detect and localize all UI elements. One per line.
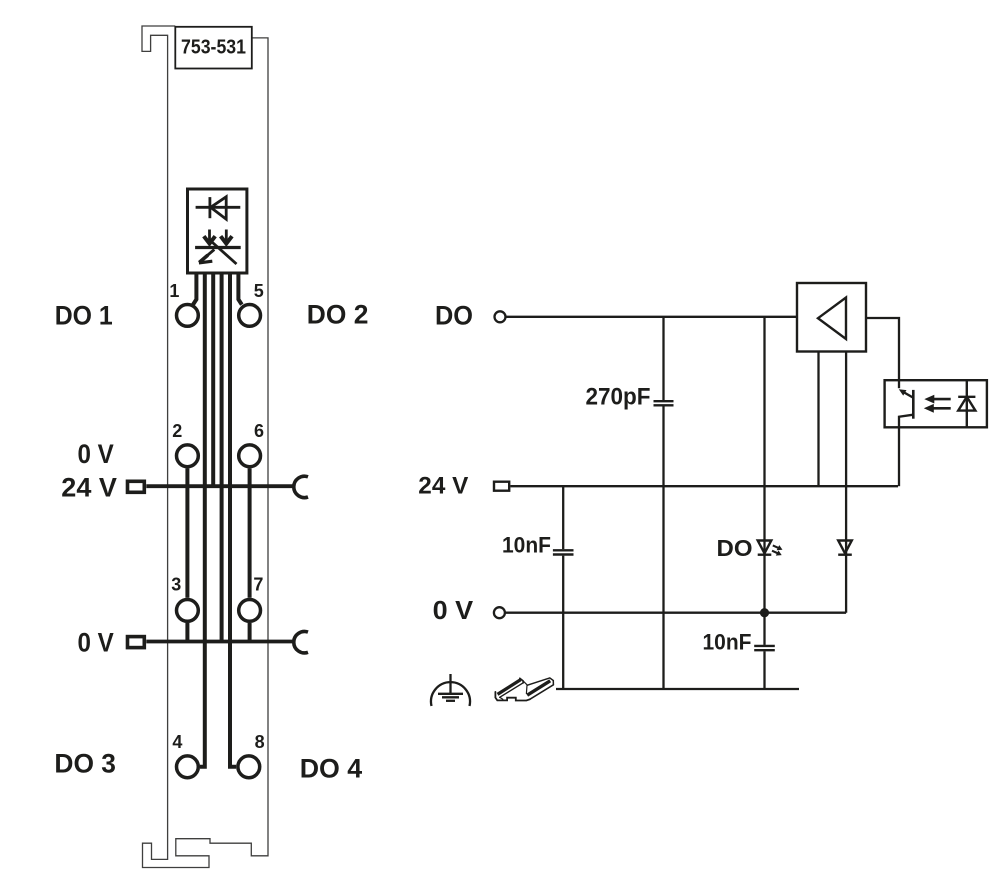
wire buffer to diode leg [845,352,847,613]
LED DO indicator [758,541,772,555]
contact 4 [177,756,199,778]
wire branch to 10nF (left) [562,486,564,549]
contact 2 [177,445,199,467]
svg-text:0 V: 0 V [78,439,114,469]
0V terminal [494,607,505,618]
wire branch to DO LED [763,317,765,613]
wire 270pF to ground bus [662,406,664,689]
svg-text:DO 2: DO 2 [307,299,369,329]
svg-text:7: 7 [253,575,263,595]
svg-text:10nF: 10nF [703,630,752,655]
svg-text:DO 4: DO 4 [300,753,363,783]
wire contact 7 to 0V bus [248,623,252,642]
wire contact 2 to contact 3 [185,468,189,597]
wire buffer output to optocoupler [866,318,899,380]
LED block box [188,189,247,273]
label 753-531 box [175,27,252,69]
optocoupler phototransistor [899,380,914,486]
wire internal 0V [220,275,224,642]
wire bus from LED block (6 internal wires) [187,275,249,767]
optocoupler LED (right) [958,380,975,427]
wire branch to 270pF [662,317,664,400]
svg-text:24 V: 24 V [61,472,117,502]
DO terminal [495,311,506,322]
svg-text:DO: DO [717,535,753,561]
optocoupler U2 box [885,380,987,427]
wire internal 24V [211,275,215,487]
contact 3 [177,600,199,622]
DIN rail icon [495,677,555,701]
svg-text:753-531: 753-531 [181,37,246,59]
earth ground symbol [431,674,470,706]
LED DO light arrows [772,545,783,556]
svg-text:270pF: 270pF [586,384,651,411]
svg-text:1: 1 [169,281,179,301]
wire 0V line [505,612,846,614]
wire 24V line [510,485,898,487]
svg-text:DO 3: DO 3 [54,749,116,779]
ground bus line [556,688,799,690]
0V terminal rect [128,637,145,648]
buffer U1 triangle [818,298,846,340]
wire internal DO1 to contact 4 [200,275,205,767]
capacitor 270pF [654,401,674,405]
svg-text:8: 8 [255,732,265,752]
contact 7 [239,600,261,622]
svg-text:0 V: 0 V [433,597,474,625]
wire junction to 10nF (right) [763,613,765,645]
capacitor 10nF (right) [754,646,775,650]
svg-text:24 V: 24 V [418,472,469,499]
24V bus line [146,484,295,488]
wire to contact 1 [193,275,196,305]
svg-text:6: 6 [254,421,264,441]
svg-text:0 V: 0 V [78,628,114,658]
contact 1 [177,305,199,327]
wire internal DO4 to contact 8 [230,275,236,767]
wire DO line [506,316,797,318]
svg-text:DO 1: DO 1 [55,300,113,330]
wire contact 6 to contact 7 [248,468,252,597]
24V terminal rect (schematic) [494,482,509,491]
svg-text:4: 4 [172,732,182,752]
svg-text:3: 3 [171,575,181,595]
contact 6 [239,445,261,467]
wire 10nF to ground bus [763,651,765,689]
contact 5 [239,305,261,327]
0V bus line [146,640,295,644]
wire buffer to 24V (left leg) [817,352,819,487]
svg-text:DO: DO [435,300,473,330]
24V terminal rect [128,481,145,492]
diode D1 (LED block top symbol) [196,197,241,219]
wire 10nF to ground bus [562,556,564,689]
buffer U1 box [797,283,866,352]
svg-text:5: 5 [254,281,264,301]
24V power jumper clamp [294,476,308,497]
contact 8 [238,756,260,778]
freewheel diode [838,541,852,555]
module outline [142,26,268,868]
0V power jumper clamp [294,631,308,652]
optocoupler light arrows [924,395,951,413]
capacitor 10nF (left) [553,550,574,554]
LED block bottom symbol (photo element arrows) [195,230,241,265]
svg-text:10nF: 10nF [502,532,551,557]
wire to contact 5 [238,275,241,305]
svg-text:2: 2 [172,421,182,441]
wire contact 3 to 0V bus [185,623,189,642]
junction node 0V/LED [760,608,769,617]
